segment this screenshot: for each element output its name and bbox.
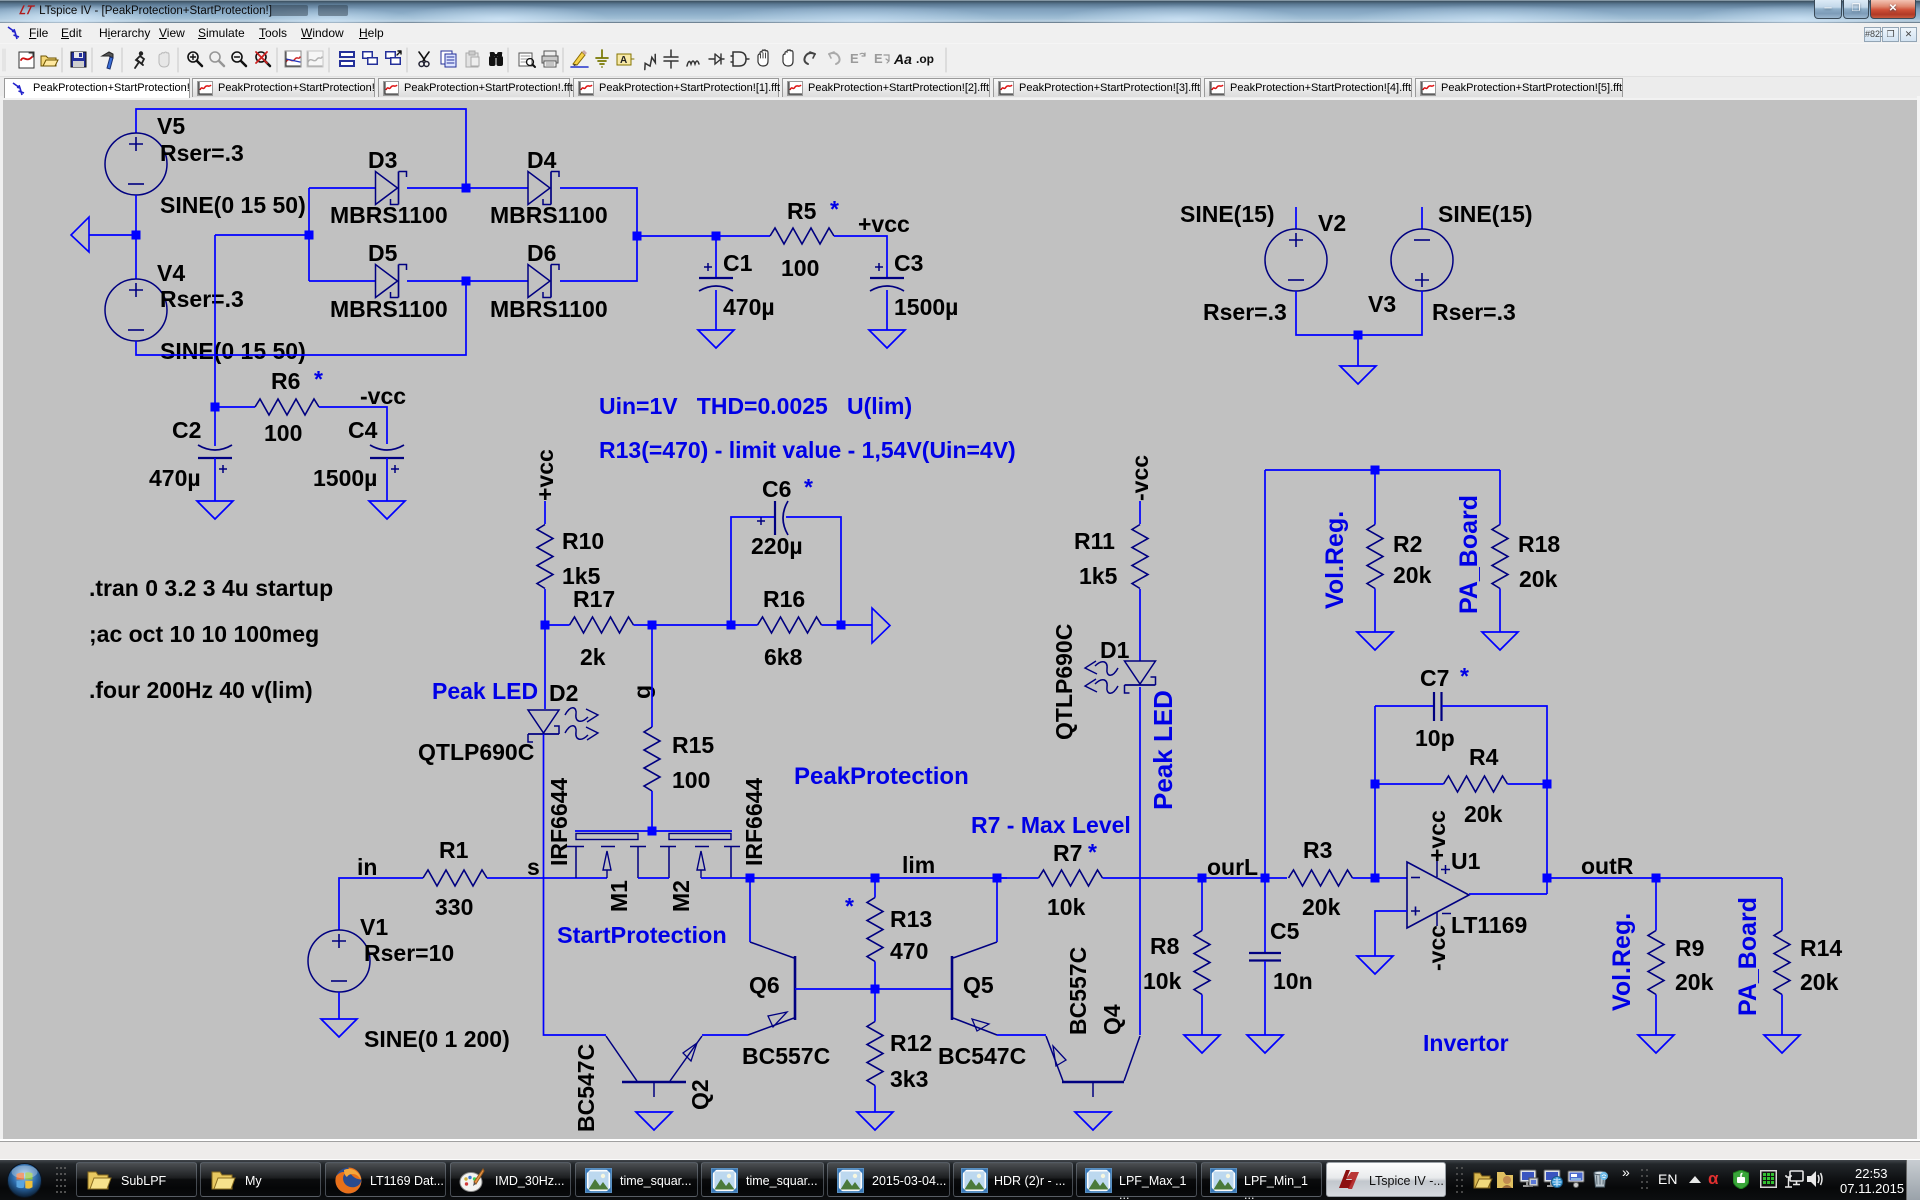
wire R8 bottom lead — [1201, 995, 1203, 1036]
wire opamp output — [1469, 893, 1547, 895]
svg-text:10n: 10n — [1273, 968, 1313, 994]
junction gate junction — [648, 827, 657, 836]
wire V2 to ground node — [1296, 291, 1358, 366]
nmos M2 — [660, 834, 740, 879]
junction R13 top node — [871, 874, 880, 883]
svg-text:R8: R8 — [1150, 933, 1180, 959]
wire R10 to gate node — [544, 589, 546, 625]
svg-text:1500µ: 1500µ — [313, 465, 377, 491]
wire C4 lead bottom — [386, 458, 388, 501]
wire C5 bottom lead — [1264, 961, 1266, 1035]
wire to D6 anode — [466, 280, 528, 282]
voltage source V4 — [105, 279, 167, 341]
svg-text:470µ: 470µ — [149, 465, 201, 491]
resistor R13 — [867, 898, 883, 962]
junction C1 node — [712, 232, 721, 241]
pnp Q6 — [748, 942, 795, 1035]
opamp U1 — [1407, 860, 1469, 928]
junction R4 left node — [1371, 780, 1380, 789]
ground Q2 ground — [636, 1112, 672, 1130]
wire D2 cathode to Q2 collector — [544, 734, 607, 1035]
wire R17 to g node — [634, 624, 653, 626]
wire C7 wire right — [1442, 706, 1547, 894]
junction C6 right node — [837, 621, 846, 630]
svg-text:Q4: Q4 — [1099, 1004, 1125, 1035]
svg-text:330: 330 — [435, 894, 473, 920]
svg-text:V3: V3 — [1368, 291, 1396, 317]
wire to D5 anode — [309, 280, 375, 282]
svg-text:10k: 10k — [1143, 968, 1182, 994]
wire R5 to C3 — [834, 236, 887, 277]
svg-text:1500µ: 1500µ — [894, 294, 958, 320]
wire R8 top lead — [1201, 878, 1203, 931]
wire R4 lead right — [1508, 783, 1548, 785]
wire node to R6 — [215, 406, 255, 408]
wire C2 lead top — [214, 407, 216, 446]
ground R2 ground — [1357, 632, 1393, 650]
net flag output arrow — [872, 608, 890, 643]
svg-text:Vol.Reg.: Vol.Reg. — [1608, 913, 1636, 1011]
junction R4 right node — [1543, 780, 1552, 789]
svg-text:*: * — [1088, 839, 1097, 865]
svg-text:lim: lim — [902, 852, 935, 878]
ground C2 ground — [197, 501, 233, 519]
svg-text:g: g — [629, 685, 655, 699]
svg-text:MBRS1100: MBRS1100 — [490, 202, 608, 228]
wire R12 bottom lead — [874, 1086, 876, 1113]
svg-text:V5: V5 — [157, 113, 185, 139]
svg-text:D3: D3 — [368, 147, 397, 173]
svg-text:10p: 10p — [1415, 725, 1455, 751]
svg-text:s: s — [527, 854, 540, 880]
svg-text:Rser=.3: Rser=.3 — [1203, 299, 1287, 325]
wire base bus to Q5 — [875, 988, 952, 990]
wire C7 wire left — [1375, 705, 1433, 707]
svg-text:-vcc: -vcc — [1424, 925, 1450, 971]
svg-text:C6: C6 — [762, 476, 791, 502]
svg-text:LT1169: LT1169 — [1451, 912, 1527, 938]
svg-text:R12: R12 — [890, 1030, 932, 1056]
junction anode bus tap — [305, 231, 314, 240]
wire Q5 collector riser — [996, 878, 998, 942]
resistor R17 — [570, 617, 634, 633]
capacitor C7 — [1434, 692, 1442, 721]
wire Q2-Q6 emitter link — [702, 1034, 748, 1036]
svg-text:R3: R3 — [1303, 837, 1332, 863]
svg-text:100: 100 — [672, 767, 710, 793]
wire D5 cathode to node — [407, 280, 466, 282]
svg-text:R16: R16 — [763, 586, 805, 612]
wire outR rail — [1547, 877, 1782, 879]
nmos M1 — [566, 834, 646, 879]
wire ourL to R3 — [1202, 877, 1287, 879]
svg-text:E: E — [850, 51, 859, 66]
svg-text:C5: C5 — [1270, 918, 1300, 944]
svg-text:StartProtection: StartProtection — [557, 922, 727, 948]
wire R9 top lead — [1655, 878, 1657, 931]
svg-text:Rser=10: Rser=10 — [364, 940, 454, 966]
diode D6 — [528, 265, 559, 298]
svg-text:SINE(15): SINE(15) — [1180, 201, 1275, 227]
svg-text:Vol.Reg.: Vol.Reg. — [1321, 511, 1349, 609]
svg-text:R13(=470) - limit value - 1,54: R13(=470) - limit value - 1,54V(Uin=4V) — [599, 437, 1016, 463]
svg-text:V4: V4 — [157, 260, 185, 286]
svg-text:1k5: 1k5 — [1079, 563, 1118, 589]
junction C5 node — [1261, 874, 1270, 883]
junction bridge output — [633, 232, 642, 241]
wire R14 bottom lead — [1781, 995, 1783, 1036]
ground R18 ground — [1482, 632, 1518, 650]
svg-text:QTLP690C: QTLP690C — [418, 739, 534, 765]
wire g node to R16 — [652, 624, 731, 626]
ground V1 ground — [321, 1019, 357, 1037]
svg-text:Q6: Q6 — [749, 972, 780, 998]
svg-text:SINE(15): SINE(15) — [1438, 201, 1533, 227]
svg-text:M2: M2 — [668, 880, 694, 912]
svg-text:.op: .op — [916, 52, 934, 66]
svg-text:R17: R17 — [573, 586, 615, 612]
svg-text:20k: 20k — [1800, 969, 1839, 995]
wire rail to R13 node — [750, 877, 875, 879]
svg-text:R5: R5 — [787, 198, 817, 224]
ground R9 ground — [1638, 1035, 1674, 1053]
wire D3 cathode to node — [407, 187, 466, 189]
svg-text:IRF6644: IRF6644 — [546, 778, 572, 866]
wire R4 lead left — [1375, 783, 1444, 785]
junction R10-R17-D2 node — [541, 621, 550, 630]
svg-text:+vcc: +vcc — [858, 211, 910, 237]
wire R17 lead left — [545, 624, 570, 626]
wire to D4 anode — [466, 187, 528, 189]
ground C4 ground — [369, 501, 405, 519]
svg-text:Peak LED: Peak LED — [1148, 690, 1178, 810]
wire R11 to D1 — [1139, 589, 1141, 661]
svg-text:R13: R13 — [890, 906, 932, 932]
wire C5 top lead — [1264, 878, 1266, 952]
wire M2 source to lim rail — [701, 877, 750, 879]
svg-text:MBRS1100: MBRS1100 — [330, 296, 448, 322]
svg-text:D6: D6 — [527, 240, 556, 266]
wire R14 top lead — [1781, 878, 1783, 931]
junction C2-R6 node — [211, 403, 220, 412]
junction g node — [648, 621, 657, 630]
resistor R14 — [1774, 931, 1790, 995]
svg-text:Invertor: Invertor — [1423, 1030, 1509, 1056]
svg-text:100: 100 — [264, 420, 302, 446]
wire V1 bottom lead — [338, 992, 340, 1019]
svg-text:C1: C1 — [723, 250, 753, 276]
svg-text:D2: D2 — [549, 680, 578, 706]
resistor R12 — [867, 1022, 883, 1086]
svg-text:SINE(0 15 50): SINE(0 15 50) — [160, 192, 306, 218]
diode D4 — [528, 172, 559, 205]
svg-text:.tran 0 3.2 3 4u startup: .tran 0 3.2 3 4u startup — [89, 575, 333, 601]
svg-text:R7: R7 — [1053, 840, 1082, 866]
svg-text:R10: R10 — [562, 528, 604, 554]
ground R12 ground — [857, 1112, 893, 1130]
wire R2 bottom lead — [1374, 589, 1376, 633]
voltage source V5 — [105, 133, 167, 195]
wire C1 lead bottom — [715, 290, 717, 330]
svg-text:;ac oct 10 10 100meg: ;ac oct 10 10 100meg — [89, 621, 319, 647]
svg-text:470: 470 — [890, 938, 928, 964]
junction D5-D6 node — [462, 277, 471, 286]
junction base node — [871, 985, 880, 994]
svg-text:20k: 20k — [1464, 801, 1503, 827]
svg-text:100: 100 — [781, 255, 819, 281]
wire +vcc stub to R10 — [544, 501, 546, 524]
svg-text:R14: R14 — [1800, 935, 1842, 961]
svg-text:PeakProtection: PeakProtection — [794, 763, 969, 790]
resistor R2 — [1367, 525, 1383, 589]
wire R13 top lead — [874, 878, 876, 898]
svg-text:20k: 20k — [1302, 894, 1341, 920]
svg-text:U1: U1 — [1451, 848, 1481, 874]
ground C3 ground — [869, 330, 905, 348]
wire V1 to in node — [339, 878, 423, 930]
svg-text:C7: C7 — [1420, 665, 1449, 691]
ground opamp + ground — [1357, 956, 1393, 974]
svg-text:*: * — [314, 366, 323, 392]
svg-text:R18: R18 — [1518, 531, 1560, 557]
svg-text:R4: R4 — [1469, 744, 1499, 770]
svg-text:10k: 10k — [1047, 894, 1086, 920]
wire flag to midpoint junction — [89, 234, 136, 236]
wire R7 to ourL — [1103, 877, 1203, 879]
junction vreg bus R2 tap — [1371, 466, 1380, 475]
pnp Q4 — [1046, 1036, 1140, 1097]
capacitor C1 — [699, 263, 733, 291]
wire R2 top lead — [1374, 470, 1376, 525]
svg-text:6k8: 6k8 — [764, 644, 803, 670]
svg-text:BC547C: BC547C — [573, 1044, 599, 1132]
wire V5 minus to V4 plus — [135, 195, 137, 279]
wire R6 to C4 — [319, 407, 387, 444]
resistor R10 — [537, 525, 553, 589]
svg-text:outR: outR — [1581, 853, 1634, 879]
svg-text:in: in — [357, 854, 377, 880]
resistor R4 — [1444, 776, 1508, 792]
junction inv input node — [1371, 874, 1380, 883]
capacitor C2 — [198, 445, 232, 473]
diode D5 — [376, 265, 407, 298]
svg-text:D1: D1 — [1100, 637, 1130, 663]
junction V5-V4 midpoint — [132, 231, 141, 240]
resistor R18 — [1492, 525, 1508, 589]
junction C6 left node — [727, 621, 736, 630]
wire g node down to R15 — [651, 625, 653, 727]
wire anode bus vertical — [308, 188, 310, 281]
wire Q6 collector riser — [749, 878, 751, 942]
wire to output flag — [841, 624, 872, 626]
svg-text:BC547C: BC547C — [938, 1043, 1026, 1069]
resistor R9 — [1648, 931, 1664, 995]
svg-text:QTLP690C: QTLP690C — [1051, 624, 1077, 740]
svg-text:Peak LED: Peak LED — [432, 678, 538, 704]
svg-text:Rser=.3: Rser=.3 — [160, 286, 244, 312]
svg-text:D5: D5 — [368, 240, 398, 266]
npn Q2 — [606, 1036, 702, 1097]
voltage source V1 — [308, 930, 370, 992]
wire -vcc stub to R11 — [1139, 501, 1141, 524]
wire C1 lead top — [715, 236, 717, 277]
wire D4 cathode to raw+ node — [560, 188, 637, 236]
svg-text:D4: D4 — [527, 147, 557, 173]
svg-text:Q5: Q5 — [963, 972, 994, 998]
wire R12 top lead — [874, 989, 876, 1022]
net flag supply midpoint arrow — [71, 217, 89, 252]
svg-text:20k: 20k — [1519, 566, 1558, 592]
diode D2 — [528, 708, 598, 742]
wire rail to Q5 node — [875, 877, 997, 879]
voltage source V2 — [1265, 229, 1327, 291]
svg-text:PA_Board: PA_Board — [1455, 495, 1483, 614]
resistor R3 — [1289, 870, 1353, 886]
svg-text:Rser=.3: Rser=.3 — [1432, 299, 1516, 325]
wire R18 bottom lead — [1499, 589, 1501, 633]
svg-text:Q2: Q2 — [687, 1079, 713, 1110]
svg-text:BC557C: BC557C — [742, 1043, 830, 1069]
wire D6 cathode to raw+ node — [560, 236, 637, 281]
wire R3 to opamp inv — [1353, 877, 1408, 879]
junction D3-D4 node — [462, 184, 471, 193]
wire R9 bottom lead — [1655, 995, 1657, 1036]
svg-text:Uin=1V THD=0.0025 U(lim): Uin=1V THD=0.0025 U(lim) — [599, 393, 912, 419]
svg-text:ourL: ourL — [1207, 854, 1258, 880]
wire Q4 collector to D1 line — [1139, 687, 1141, 1035]
wire R7 lead left — [997, 877, 1039, 879]
wire Q6 base wire — [795, 988, 875, 990]
wire vreg bus — [1265, 469, 1500, 471]
junction Q5 collector node — [993, 874, 1002, 883]
svg-text:M1: M1 — [606, 880, 632, 912]
svg-text:.four 200Hz 40 v(lim): .four 200Hz 40 v(lim) — [89, 677, 313, 703]
wire C6 left riser — [731, 517, 774, 625]
svg-text:R6: R6 — [271, 368, 300, 394]
svg-text:+vcc: +vcc — [1424, 810, 1450, 862]
capacitor C4 — [370, 445, 404, 473]
svg-text:SINE(0 15 50): SINE(0 15 50) — [160, 338, 306, 364]
wire to D3 anode — [309, 187, 375, 189]
svg-text:20k: 20k — [1393, 562, 1432, 588]
svg-text:E: E — [874, 51, 883, 66]
ground C1 ground — [698, 330, 734, 348]
wire R1 to M1 source — [487, 877, 607, 879]
wire C6 right riser — [786, 517, 841, 625]
svg-text:Aa: Aa — [893, 51, 912, 67]
wire R18 top lead — [1499, 470, 1501, 525]
wire down to C2-R6 node — [214, 235, 216, 407]
wire R16 lead right — [822, 624, 842, 626]
wire R13 bottom lead — [874, 962, 876, 990]
svg-text:+vcc: +vcc — [532, 449, 558, 501]
svg-text:R9: R9 — [1675, 935, 1704, 961]
resistor R1 — [423, 870, 487, 886]
resistor R8 — [1194, 931, 1210, 995]
ground Q4 ground — [1075, 1112, 1111, 1130]
wire gate node down to D2 — [544, 625, 546, 709]
wire R16 lead left — [731, 624, 758, 626]
resistor R15 — [644, 727, 660, 791]
svg-text:20k: 20k — [1675, 969, 1714, 995]
wire V2 top stub — [1295, 207, 1297, 229]
junction R8 node ourL — [1198, 874, 1207, 883]
wire V4 minus to D5-D6 bottom — [136, 281, 466, 355]
svg-text:R11: R11 — [1074, 528, 1115, 554]
svg-text:PA_Board: PA_Board — [1734, 897, 1762, 1016]
svg-text:V2: V2 — [1318, 210, 1346, 236]
ground R8 ground — [1184, 1035, 1220, 1053]
svg-text:470µ: 470µ — [723, 294, 775, 320]
diode D1 — [1085, 661, 1156, 693]
wire C7 left riser — [1374, 706, 1376, 878]
svg-text:3k3: 3k3 — [890, 1066, 928, 1092]
svg-text:V1: V1 — [360, 914, 388, 940]
resistor R16 — [758, 617, 822, 633]
wire C3 lead bottom — [886, 290, 888, 330]
wire V5 top to bridge node — [136, 109, 466, 188]
wire V3 top stub — [1421, 207, 1423, 229]
junction V2-V3 ground node — [1354, 331, 1363, 340]
svg-text:-vcc: -vcc — [360, 383, 406, 409]
wire drain-drain link — [638, 877, 669, 879]
capacitor C5 — [1249, 953, 1281, 961]
svg-text:MBRS1100: MBRS1100 — [330, 202, 448, 228]
junction output node — [1543, 874, 1552, 883]
wire bus riser to ourL — [1264, 470, 1266, 878]
wire V3 to ground node — [1358, 291, 1422, 335]
svg-text:*: * — [845, 893, 854, 919]
resistor R11 — [1132, 525, 1148, 589]
wire gate bus — [575, 830, 732, 832]
svg-text:MBRS1100: MBRS1100 — [490, 296, 608, 322]
resistor R7 — [1039, 870, 1103, 886]
wire bridge output to C1 — [637, 235, 716, 237]
capacitor C3 — [870, 263, 904, 291]
svg-text:C2: C2 — [172, 417, 201, 443]
resistor R5 — [770, 228, 834, 244]
wire R15 to gate junction — [651, 791, 653, 831]
svg-text:R15: R15 — [672, 732, 714, 758]
svg-text:*: * — [1460, 663, 1469, 689]
svg-text:SINE(0 1 200): SINE(0 1 200) — [364, 1026, 510, 1052]
ground R14 ground — [1764, 1035, 1800, 1053]
svg-text:C4: C4 — [348, 417, 378, 443]
svg-text:A: A — [620, 55, 627, 66]
svg-text:R1: R1 — [439, 837, 469, 863]
wire midpoint to C2 node — [215, 234, 309, 236]
wire opamp + input to ground — [1375, 911, 1407, 956]
svg-text:220µ: 220µ — [751, 533, 803, 559]
svg-text:*: * — [830, 196, 839, 222]
resistor R6 — [255, 399, 319, 415]
svg-text:2k: 2k — [580, 644, 606, 670]
junction M2 source node — [746, 874, 755, 883]
ground V2-V3 ground — [1340, 366, 1376, 384]
svg-text:*: * — [804, 474, 813, 500]
svg-text:R2: R2 — [1393, 531, 1422, 557]
svg-text:BC557C: BC557C — [1065, 947, 1091, 1035]
voltage source V3 — [1391, 229, 1453, 291]
wire C1 node to R5 — [716, 235, 770, 237]
diode D3 — [376, 172, 407, 205]
svg-text:IRF6644: IRF6644 — [741, 778, 767, 866]
wire Q5-Q4 emitter link — [997, 1034, 1046, 1036]
npn Q5 — [952, 942, 997, 1035]
svg-text:-vcc: -vcc — [1127, 455, 1153, 501]
wire C2 lead bottom — [214, 458, 216, 501]
svg-text:C3: C3 — [894, 250, 923, 276]
